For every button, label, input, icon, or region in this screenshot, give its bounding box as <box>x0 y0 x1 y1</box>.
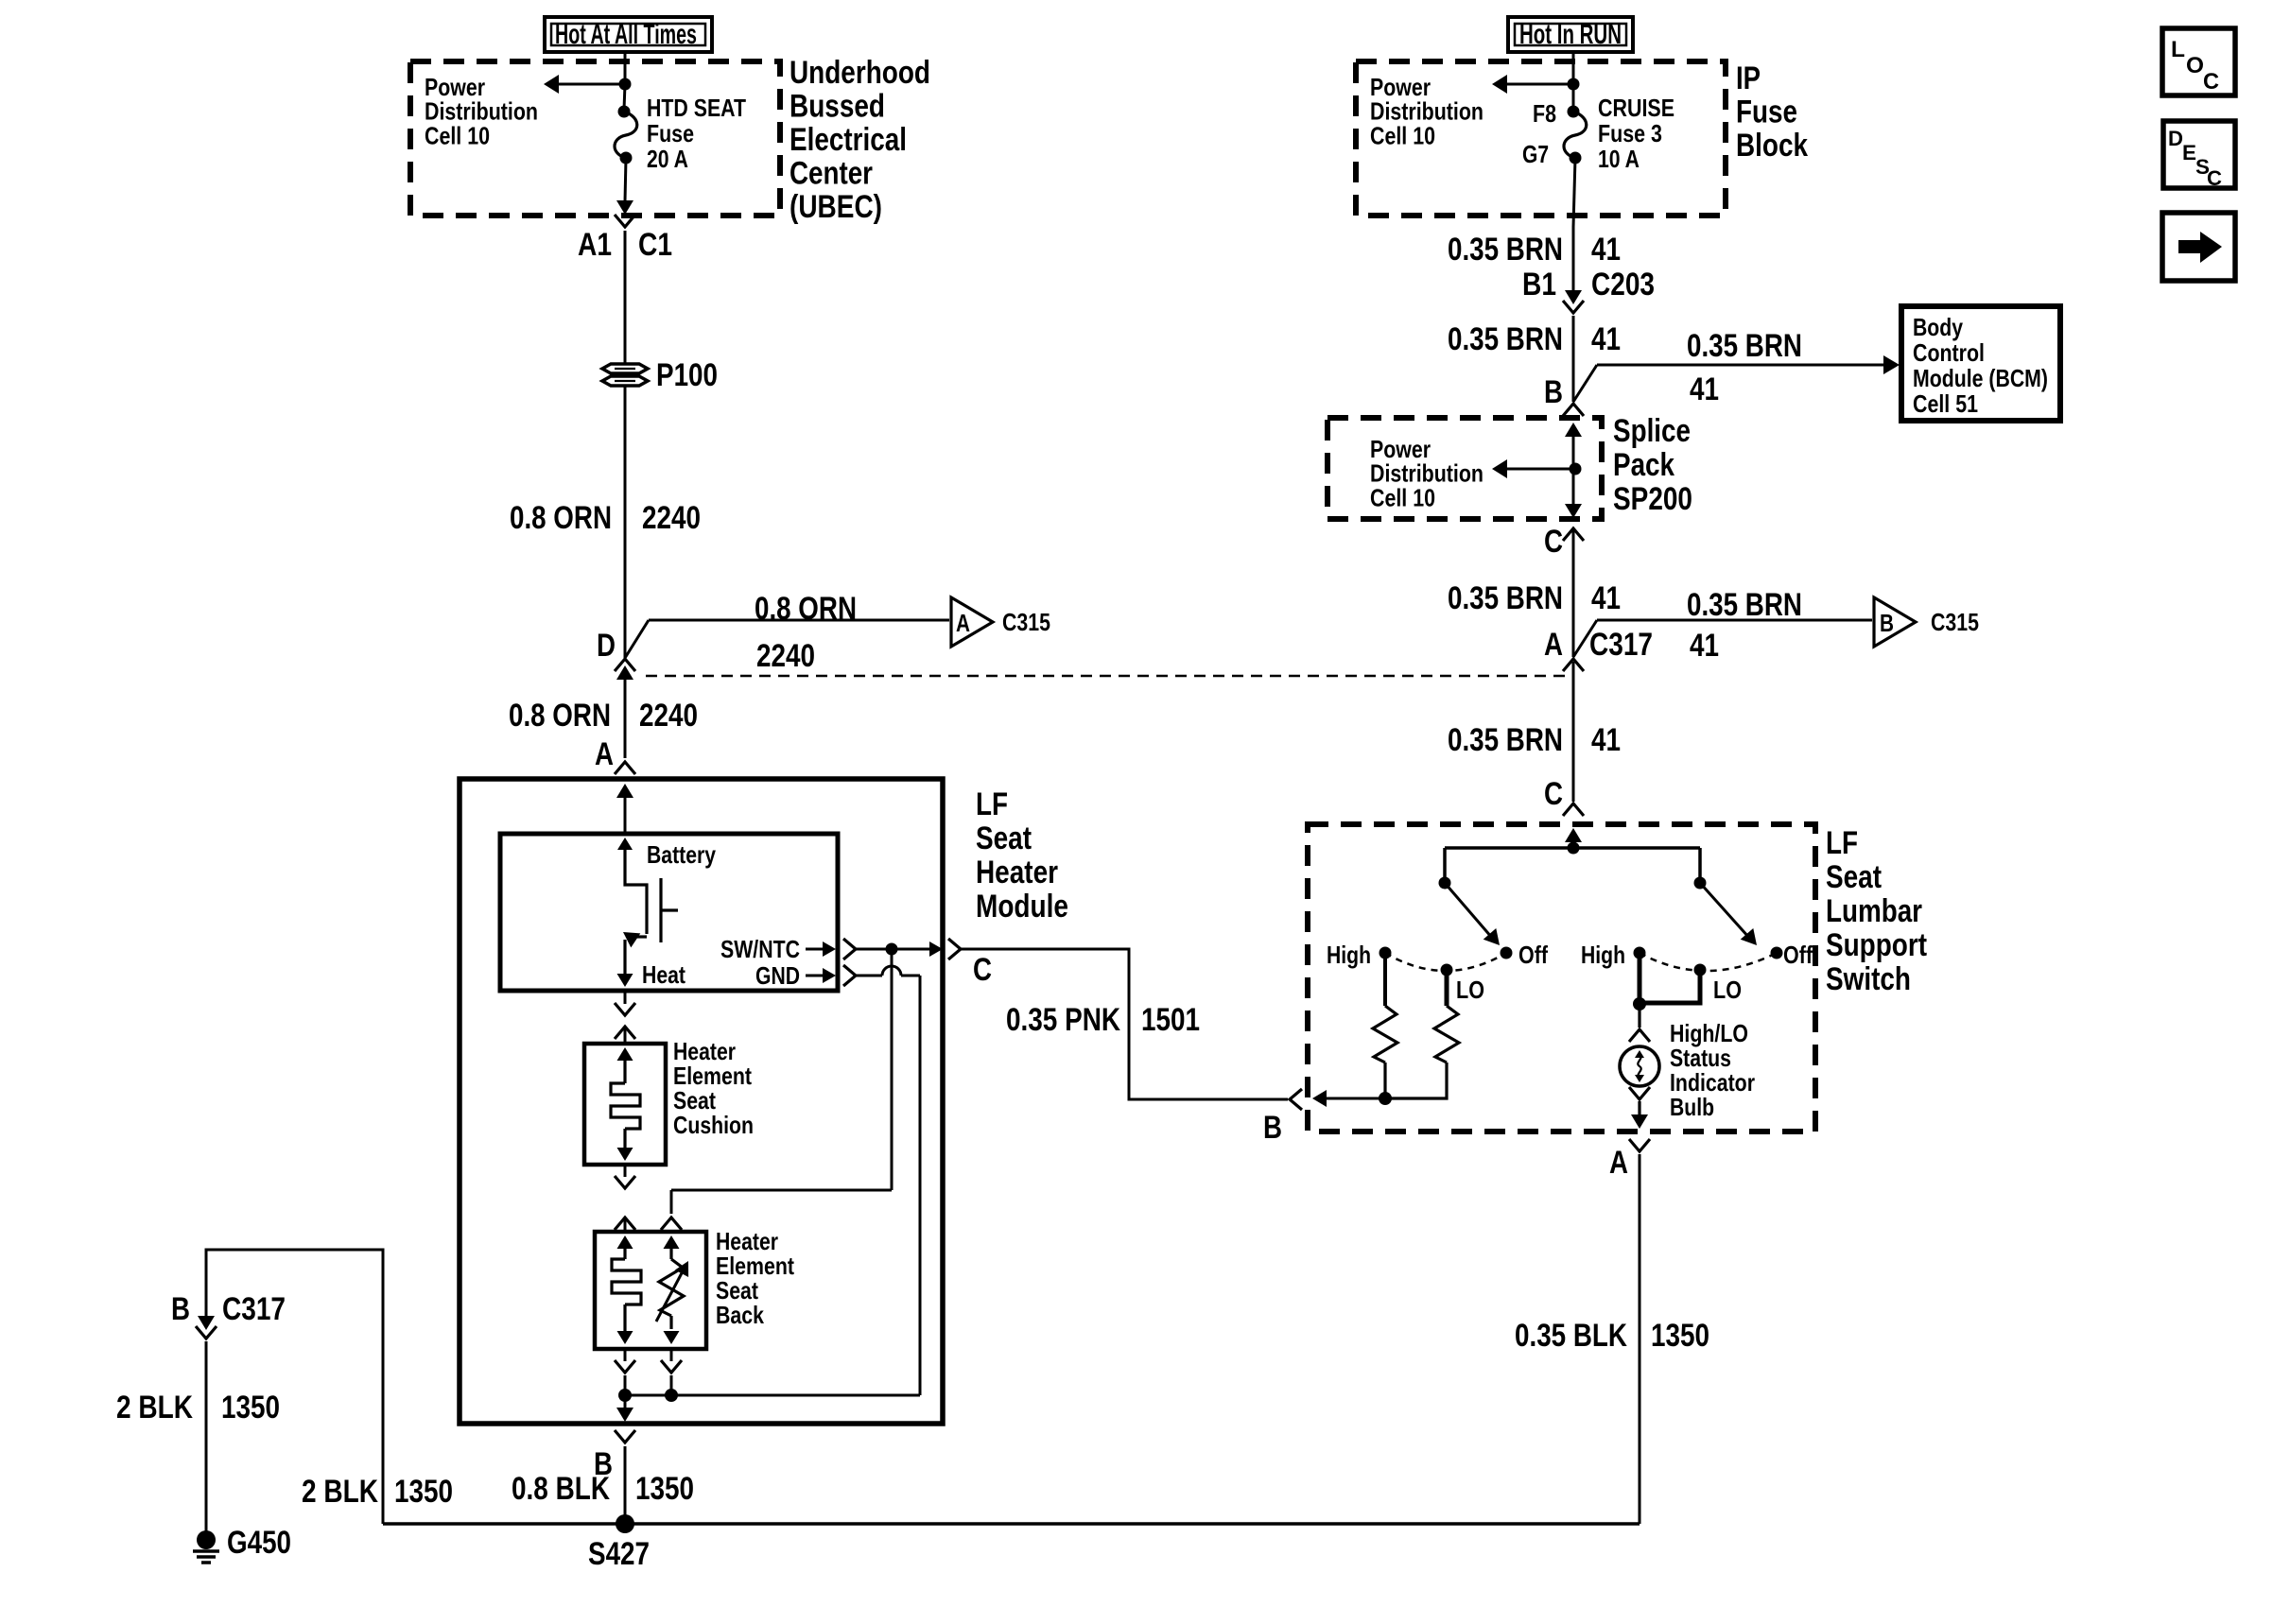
resistor low <box>1445 970 1449 1006</box>
resistor junction <box>1379 1092 1392 1105</box>
label box Hot In RUN <box>1508 17 1633 52</box>
svg-text:Heat: Heat <box>642 960 685 989</box>
svg-text:41: 41 <box>1591 580 1621 616</box>
svg-text:Off: Off <box>1518 941 1548 969</box>
IP fuse block dashed box <box>1356 61 1726 216</box>
chevrons below seat back box <box>624 1349 627 1361</box>
svg-text:20 A: 20 A <box>647 145 688 173</box>
sense wire across <box>671 1189 892 1192</box>
LOC reference box <box>2162 28 2235 95</box>
svg-text:Support: Support <box>1826 927 1927 963</box>
svg-text:C: C <box>1544 776 1563 812</box>
chevron outside module C <box>948 939 961 959</box>
bus junction <box>1568 842 1580 855</box>
svg-text:2240: 2240 <box>756 638 815 674</box>
svg-text:F8: F8 <box>1533 99 1556 128</box>
connector C317 inline <box>198 1316 215 1330</box>
svg-text:C: C <box>1544 524 1563 560</box>
chevron above seat back left terminal <box>615 1218 635 1230</box>
svg-text:1350: 1350 <box>635 1471 694 1507</box>
svg-text:41: 41 <box>1690 628 1719 664</box>
svg-text:Fuse: Fuse <box>647 119 694 147</box>
connector chevrons below battery box <box>624 991 627 1004</box>
splice junction <box>1570 463 1582 475</box>
svg-text:0.35 BRN: 0.35 BRN <box>1448 232 1563 268</box>
svg-text:41: 41 <box>1690 371 1719 407</box>
arrow into module pin A <box>616 784 633 798</box>
branch wire D to C315-A <box>625 620 649 658</box>
switch supply bus <box>1445 846 1700 850</box>
chevron below bulb <box>1629 1087 1650 1099</box>
svg-text:LF: LF <box>1826 825 1858 861</box>
svg-text:G7: G7 <box>1522 140 1549 168</box>
svg-text:Pack: Pack <box>1613 447 1674 483</box>
chevron above lumbar switch <box>1563 803 1584 816</box>
wire fuse to UBEC edge <box>625 158 626 201</box>
svg-text:C: C <box>973 952 992 988</box>
svg-text:A: A <box>1609 1145 1628 1181</box>
svg-text:Control: Control <box>1913 338 1985 367</box>
ground run to C317 <box>206 1250 383 1524</box>
GND wire with hop over sense wire <box>856 975 882 977</box>
chevron SW/NTC outside inner box <box>843 939 856 959</box>
svg-text:B1: B1 <box>1522 267 1556 302</box>
chevron above bulb <box>1629 1029 1650 1042</box>
svg-text:0.8 BLK: 0.8 BLK <box>512 1471 610 1507</box>
junction SW/NTC sense <box>886 943 898 956</box>
chevron at lumbar pin B <box>1290 1089 1302 1110</box>
svg-text:SW/NTC: SW/NTC <box>720 935 800 963</box>
ground wire to S427 <box>624 1446 627 1524</box>
svg-text:0.8 ORN: 0.8 ORN <box>510 500 612 536</box>
svg-text:Hot At All Times: Hot At All Times <box>555 19 697 50</box>
svg-text:Seat: Seat <box>1826 859 1882 895</box>
svg-text:Cushion: Cushion <box>673 1111 754 1139</box>
svg-text:Module (BCM): Module (BCM) <box>1913 364 2048 392</box>
element return junction dots <box>624 1375 627 1395</box>
connector triangle B C315 <box>1874 597 1916 647</box>
wire from Hot At All Times into UBEC <box>624 52 627 84</box>
wire A to lumbar switch <box>1572 662 1575 802</box>
svg-text:2 BLK: 2 BLK <box>302 1474 378 1510</box>
splice feed arrow to power distribution <box>1505 468 1575 471</box>
svg-text:C: C <box>2207 166 2222 190</box>
svg-text:Hot In RUN: Hot In RUN <box>1519 19 1622 50</box>
svg-text:C317: C317 <box>1589 627 1653 663</box>
chevron above seat back right terminal <box>661 1218 682 1230</box>
svg-text:Heater: Heater <box>976 855 1058 890</box>
svg-text:2 BLK: 2 BLK <box>116 1390 193 1425</box>
svg-text:2240: 2240 <box>642 500 701 536</box>
svg-text:O: O <box>2186 53 2204 78</box>
connector triangle A C315 <box>951 597 993 647</box>
chevron below seat cushion box <box>624 1165 627 1177</box>
svg-text:B: B <box>1544 374 1563 410</box>
svg-text:D: D <box>597 628 616 664</box>
chevron GND outside inner box <box>843 965 856 986</box>
svg-text:0.35 PNK: 0.35 PNK <box>1006 1002 1120 1038</box>
sense wire down to seat back element <box>670 1190 673 1214</box>
svg-text:Center: Center <box>789 156 873 192</box>
svg-text:1350: 1350 <box>1651 1318 1709 1354</box>
svg-text:E: E <box>2182 141 2196 164</box>
seat back variable resistor <box>664 1235 680 1249</box>
wire fuse to IP edge <box>1573 158 1575 227</box>
svg-text:L: L <box>2171 37 2185 62</box>
svg-text:0.8 ORN: 0.8 ORN <box>509 698 611 734</box>
svg-text:High: High <box>1581 941 1625 969</box>
svg-text:Fuse: Fuse <box>1736 95 1797 130</box>
svg-text:0.35 BLK: 0.35 BLK <box>1515 1318 1627 1354</box>
svg-text:1350: 1350 <box>394 1474 453 1510</box>
switch gate bar <box>659 878 662 942</box>
low wire join <box>1640 970 1700 1003</box>
wire to bulb <box>1638 1004 1640 1028</box>
DESC reference box <box>2163 121 2235 188</box>
high wire to bulb <box>1638 953 1642 1004</box>
connector chevron module A <box>615 762 635 774</box>
svg-text:0.8 ORN: 0.8 ORN <box>755 591 857 627</box>
bulb junction <box>1633 997 1646 1011</box>
svg-text:Body: Body <box>1913 313 1963 341</box>
svg-text:C1: C1 <box>638 227 672 263</box>
svg-text:0.35 BRN: 0.35 BRN <box>1448 321 1563 357</box>
wire splice to node A <box>1572 530 1575 657</box>
label box Hot At All Times <box>545 17 712 52</box>
svg-text:0.35 BRN: 0.35 BRN <box>1687 328 1802 364</box>
svg-text:HTD SEAT: HTD SEAT <box>647 94 746 122</box>
Body Control Module box <box>1901 306 2060 421</box>
svg-text:Underhood: Underhood <box>789 55 930 91</box>
ground G450 <box>197 1530 216 1549</box>
svg-text:B: B <box>1880 609 1894 637</box>
internal switch symbol <box>617 838 633 850</box>
arrow at module edge pin C <box>929 942 943 957</box>
wire C203 to node B <box>1572 316 1575 402</box>
svg-text:Lumbar: Lumbar <box>1826 893 1922 929</box>
svg-text:Battery: Battery <box>647 840 716 869</box>
connector chevron below D <box>615 659 635 671</box>
svg-text:LO: LO <box>1456 976 1484 1004</box>
svg-text:Module: Module <box>976 889 1068 924</box>
junction to power distribution <box>619 78 632 91</box>
heater element seat cushion box <box>584 1044 666 1165</box>
svg-text:A: A <box>595 736 614 772</box>
High-LO status indicator bulb <box>1620 1046 1659 1086</box>
svg-text:0.35 BRN: 0.35 BRN <box>1687 587 1802 623</box>
chevron below node B <box>1563 404 1584 416</box>
right switch position dots <box>1634 947 1646 959</box>
svg-text:0.35 BRN: 0.35 BRN <box>1448 580 1563 616</box>
svg-text:0.35 BRN: 0.35 BRN <box>1448 722 1563 758</box>
svg-text:A: A <box>1544 627 1563 663</box>
svg-text:1501: 1501 <box>1141 1002 1200 1038</box>
inline connector arrow C315 <box>616 665 633 680</box>
left switch position dots <box>1379 947 1392 959</box>
svg-text:C315: C315 <box>1002 608 1050 636</box>
svg-text:Cell 10: Cell 10 <box>425 121 490 149</box>
svg-text:41: 41 <box>1591 321 1621 357</box>
arrow into lumbar switch pin C <box>1565 828 1582 842</box>
svg-text:C317: C317 <box>222 1291 286 1327</box>
resistor high <box>1383 953 1387 1006</box>
svg-text:A1: A1 <box>578 227 612 263</box>
fuse CRUISE Fuse 3 10 A <box>1572 84 1575 110</box>
chevron below module pin B <box>615 1430 635 1443</box>
svg-text:B: B <box>171 1291 190 1327</box>
svg-text:D: D <box>2168 127 2183 150</box>
bulb exit arrow at box edge <box>1638 1101 1640 1115</box>
left switch dashed arc <box>1385 953 1506 971</box>
sense wire down from junction <box>891 949 894 1190</box>
power distribution feed arrow <box>1506 83 1573 86</box>
svg-text:1350: 1350 <box>221 1390 280 1425</box>
svg-text:10 A: 10 A <box>1598 145 1640 173</box>
wire module C to lumbar B <box>961 949 1288 1099</box>
left wiper arrow <box>1445 883 1492 938</box>
wire C1 to P100 <box>624 231 627 363</box>
wire C317 to G450 <box>205 1341 208 1531</box>
svg-text:Splice: Splice <box>1613 413 1691 449</box>
svg-text:SP200: SP200 <box>1613 481 1692 517</box>
heater element seat back box <box>595 1232 706 1349</box>
svg-text:IP: IP <box>1736 60 1761 96</box>
svg-text:Cell 10: Cell 10 <box>1370 121 1435 149</box>
svg-text:Seat: Seat <box>976 821 1032 856</box>
svg-text:2240: 2240 <box>639 698 698 734</box>
UBEC dashed box <box>410 61 780 216</box>
splice pack dashed box <box>1327 418 1602 519</box>
svg-text:High: High <box>1327 941 1371 969</box>
left switch post <box>1443 848 1447 883</box>
right wiper arrow <box>1700 883 1749 938</box>
svg-text:Block: Block <box>1736 128 1808 164</box>
power distribution feed arrow <box>558 83 625 86</box>
ground wire from lumbar switch <box>1639 1154 1641 1524</box>
svg-text:B: B <box>1263 1110 1282 1146</box>
module ground exit arrow <box>624 1395 627 1408</box>
junction to power distribution <box>1568 78 1580 91</box>
forward arrow reference box <box>2162 213 2235 281</box>
svg-text:LF: LF <box>976 786 1008 822</box>
svg-text:S427: S427 <box>588 1536 650 1572</box>
pass-through grommet P100 <box>602 364 648 386</box>
svg-text:Back: Back <box>716 1301 764 1329</box>
splice exit arrow <box>1572 469 1575 505</box>
svg-text:C203: C203 <box>1591 267 1655 302</box>
svg-text:C: C <box>2203 69 2219 95</box>
right switch dashed arc <box>1640 953 1777 971</box>
LF Seat Heater Module box <box>460 779 943 1424</box>
seat cushion resistor <box>617 1047 633 1061</box>
connector C203 inline <box>1572 227 1575 291</box>
dashed connector association line C315-C317 <box>646 675 1568 678</box>
chevron below splice pack <box>1563 528 1584 541</box>
svg-text:CRUISE: CRUISE <box>1598 94 1674 122</box>
svg-text:P100: P100 <box>656 357 718 393</box>
svg-text:Cell 10: Cell 10 <box>1370 483 1435 511</box>
svg-text:Off: Off <box>1783 941 1813 969</box>
branch wire A to C315-B <box>1573 620 1597 657</box>
svg-text:Electrical: Electrical <box>789 122 907 158</box>
svg-text:Switch: Switch <box>1826 961 1911 997</box>
arrow into splice pack <box>1565 423 1582 437</box>
lumbar switch output arrow pin B <box>1318 1097 1385 1100</box>
svg-text:Fuse 3: Fuse 3 <box>1598 119 1662 147</box>
branch wire B to BCM <box>1573 365 1597 402</box>
fuse HTD SEAT 20 A <box>624 84 625 110</box>
svg-text:Bulb: Bulb <box>1670 1093 1714 1121</box>
element return bus wire <box>625 1394 920 1397</box>
right switch post <box>1698 848 1702 883</box>
svg-text:(UBEC): (UBEC) <box>789 189 882 225</box>
arrow at UBEC exit C1 <box>616 200 633 215</box>
svg-text:G450: G450 <box>227 1525 291 1561</box>
chevron below lumbar box pin A <box>1629 1139 1650 1151</box>
wire SW/NTC to module edge <box>856 948 936 951</box>
svg-text:LO: LO <box>1713 976 1742 1004</box>
svg-text:C315: C315 <box>1931 608 1979 636</box>
wire P100 to node D <box>624 387 627 658</box>
GND return wire down <box>919 976 922 1395</box>
svg-text:41: 41 <box>1591 722 1621 758</box>
svg-text:GND: GND <box>755 961 800 990</box>
battery-heat switch inner box <box>500 834 838 991</box>
connector chevron C1 <box>615 215 635 227</box>
chevron below node A <box>1563 659 1584 671</box>
svg-text:Cell 51: Cell 51 <box>1913 389 1978 418</box>
ground bus wire <box>383 1522 1640 1526</box>
svg-text:A: A <box>956 609 970 637</box>
seat back fixed resistor <box>617 1235 633 1249</box>
LF Seat Lumbar Support Switch dashed box <box>1308 824 1815 1132</box>
splice S427 <box>616 1514 634 1533</box>
svg-text:Bussed: Bussed <box>789 89 885 125</box>
svg-text:41: 41 <box>1591 232 1621 268</box>
wire from Hot In RUN <box>1572 52 1575 84</box>
